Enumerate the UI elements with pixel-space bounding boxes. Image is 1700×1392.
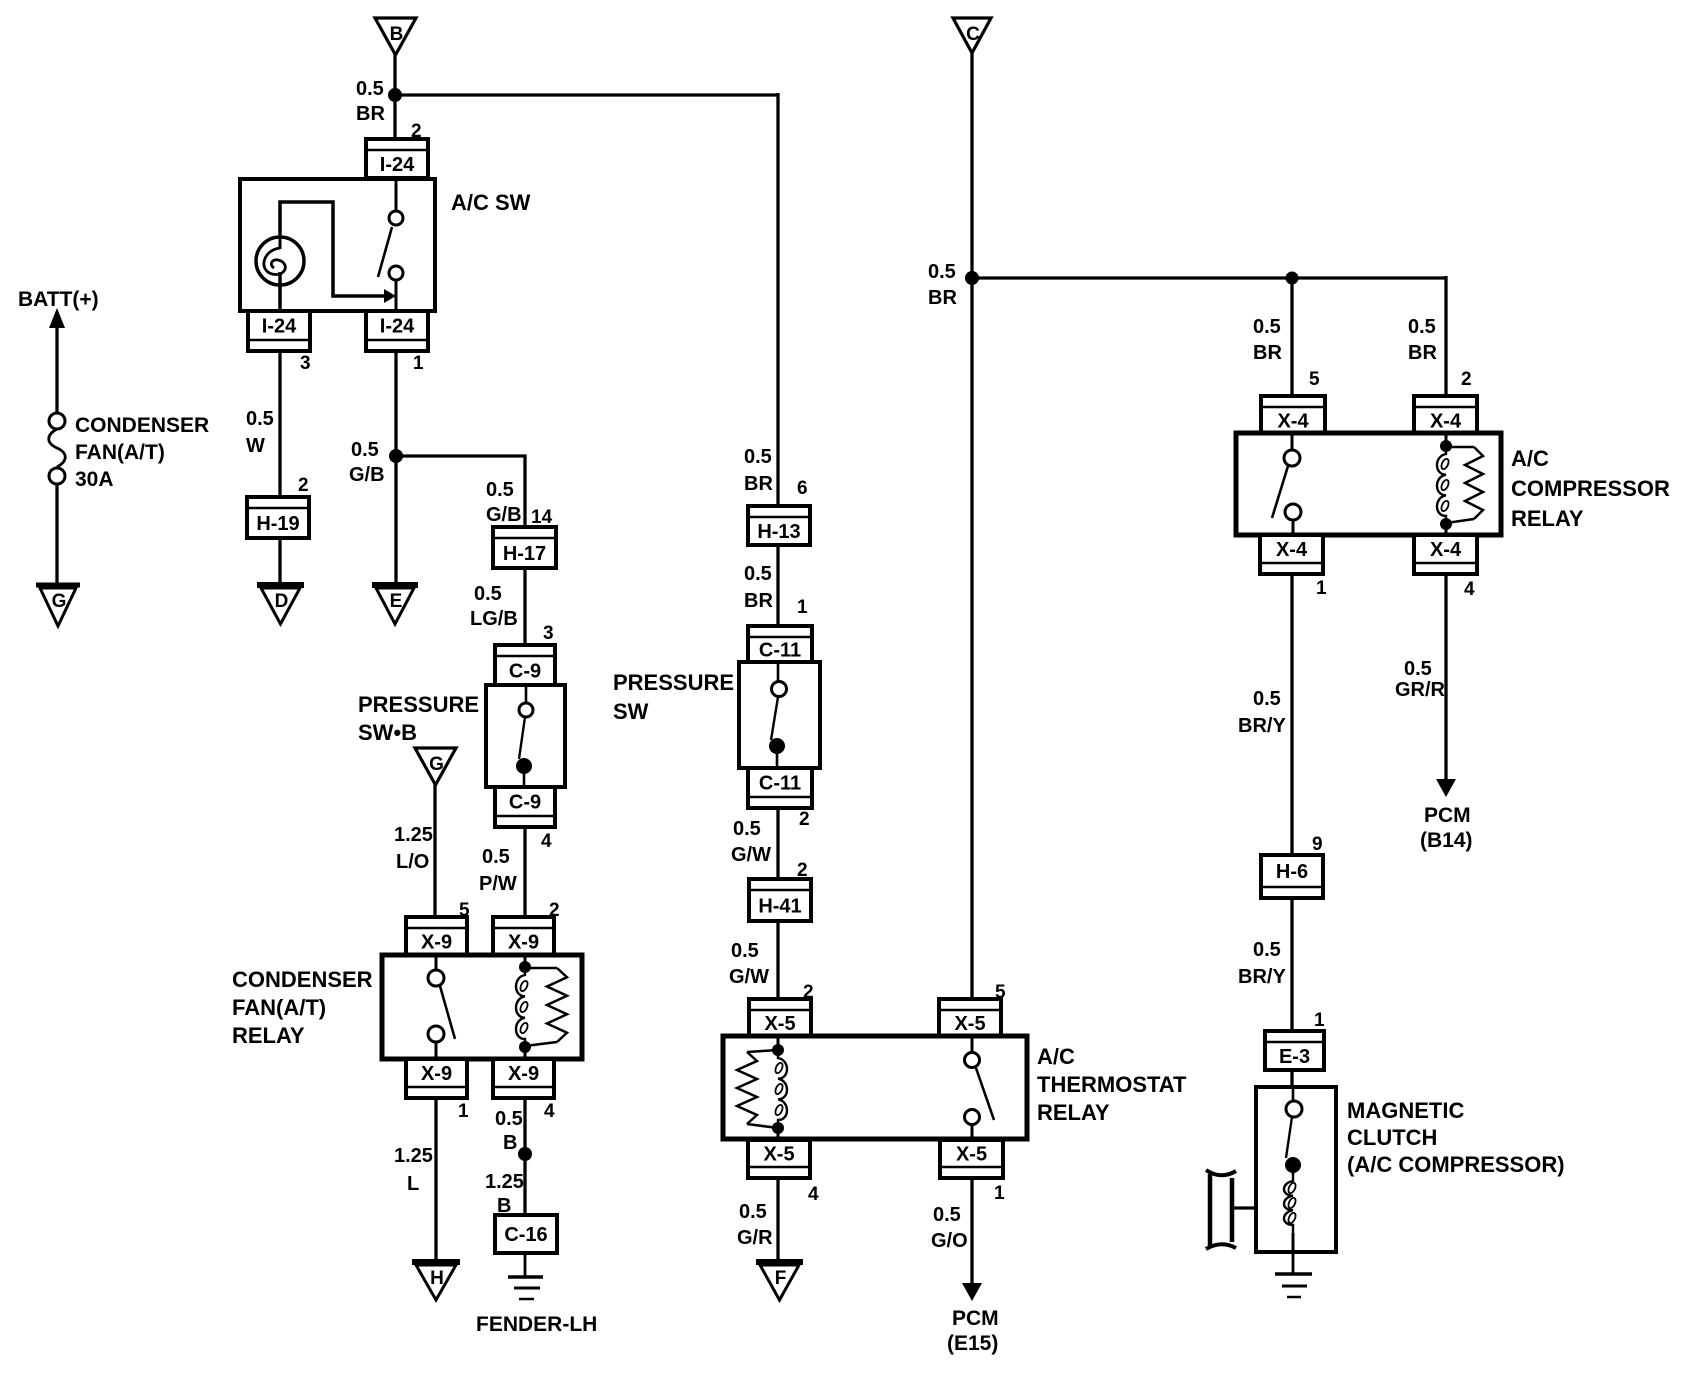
page connector C: [953, 18, 991, 53]
connector X-9 pin 1: [406, 1059, 467, 1098]
relay box A/C THERMOSTAT RELAY: [723, 1036, 1027, 1139]
pin 2 (X-5 top left): [803, 982, 814, 1003]
pin 14 (H-17): [531, 507, 553, 528]
svg-text:W: W: [246, 435, 265, 457]
pin 9 (H-6): [1312, 834, 1323, 855]
connector X-4 pin 1: [1260, 535, 1323, 574]
svg-text:X-9: X-9: [508, 1063, 539, 1085]
svg-text:(A/C COMPRESSOR): (A/C COMPRESSOR): [1347, 1152, 1565, 1177]
pin 5 (X-9 top left): [459, 900, 470, 921]
page connector B: [375, 18, 416, 55]
svg-text:4: 4: [1464, 579, 1475, 600]
switch contacts PRESSURE SW: [769, 662, 787, 768]
svg-text:COMPRESSOR: COMPRESSOR: [1511, 476, 1670, 501]
svg-text:X-9: X-9: [421, 932, 452, 954]
wire H-6 to E-3: [1290, 898, 1293, 1033]
svg-text:I-24: I-24: [380, 316, 415, 338]
connector I-24 pin 1: [366, 311, 428, 351]
connector E-3: [1265, 1031, 1324, 1070]
svg-text:I-24: I-24: [262, 316, 297, 338]
wire X-9 pin1 to H: [434, 1098, 437, 1263]
svg-text:A/C: A/C: [1511, 446, 1549, 471]
svg-text:X-5: X-5: [954, 1013, 985, 1035]
switch contacts magnetic clutch: [1285, 1087, 1302, 1173]
svg-text:H-13: H-13: [757, 521, 800, 543]
svg-text:0.5: 0.5: [928, 261, 956, 283]
svg-text:C: C: [966, 24, 980, 45]
svg-text:0.5: 0.5: [1253, 939, 1281, 961]
svg-text:H-17: H-17: [503, 543, 546, 565]
svg-text:0.5: 0.5: [482, 846, 510, 868]
relay box CONDENSER FAN(A/T) RELAY: [382, 955, 582, 1059]
wire label 0.5 BR/Y (lower): [1238, 939, 1286, 988]
page connector G (source): [415, 748, 456, 785]
connector X-4 pin 5: [1261, 396, 1325, 434]
node junction compressor branch: [1286, 272, 1299, 285]
connector X-5 pin 2: [749, 999, 811, 1036]
svg-text:G/B: G/B: [486, 504, 522, 526]
switch box PRESSURE SW-B: [486, 685, 565, 787]
connector X-9 pin 4: [493, 1059, 554, 1098]
ground (magnetic clutch): [1275, 1274, 1312, 1297]
svg-text:A/C: A/C: [1037, 1044, 1075, 1069]
node junction G/B: [389, 449, 403, 463]
svg-text:1.25: 1.25: [485, 1171, 524, 1193]
wire label 0.5 GR/R: [1395, 658, 1446, 701]
svg-text:BATT(+): BATT(+): [18, 288, 99, 311]
connector C-9 pin 4: [495, 787, 555, 827]
svg-text:B: B: [503, 1132, 517, 1154]
svg-text:C-9: C-9: [509, 792, 541, 814]
pin 2 (X-9 top right): [549, 900, 560, 921]
connector X-4 pin 4: [1414, 535, 1477, 574]
svg-text:E-3: E-3: [1279, 1046, 1310, 1068]
svg-text:G/W: G/W: [731, 844, 771, 866]
svg-text:X-4: X-4: [1277, 411, 1309, 433]
wire label 0.5 LG/B: [470, 583, 518, 630]
relay coil resistor (compressor relay): [1446, 447, 1483, 523]
relay switch (condenser fan relay): [428, 955, 455, 1059]
svg-text:X-4: X-4: [1430, 411, 1462, 433]
svg-text:C-11: C-11: [759, 640, 801, 662]
svg-text:(E15): (E15): [947, 1332, 998, 1355]
wire lamp top to switch output: [280, 202, 388, 296]
svg-text:1.25: 1.25: [394, 824, 433, 846]
svg-text:1: 1: [458, 1101, 469, 1122]
connector X-5 pin 4: [748, 1140, 810, 1178]
svg-text:I-24: I-24: [380, 154, 415, 176]
svg-text:F: F: [775, 1268, 787, 1289]
svg-text:CONDENSER: CONDENSER: [232, 967, 373, 992]
svg-text:THERMOSTAT: THERMOSTAT: [1037, 1072, 1187, 1097]
svg-text:X-5: X-5: [763, 1144, 794, 1166]
wire H-41 to X-5 pin 2: [776, 921, 779, 1001]
wire C junction to compressor relay: [972, 276, 1446, 279]
pin 2 (C-11 bottom): [799, 809, 810, 830]
wire label 1.25 L: [394, 1145, 433, 1195]
svg-text:BR/Y: BR/Y: [1238, 715, 1286, 737]
svg-text:PCM: PCM: [952, 1307, 999, 1330]
switch contacts A/C SW: [378, 178, 403, 311]
svg-text:0.5: 0.5: [933, 1204, 961, 1226]
svg-text:5: 5: [1309, 369, 1320, 390]
svg-text:BR: BR: [744, 590, 773, 612]
connector X-5 pin 5: [939, 999, 1001, 1036]
svg-text:0.5: 0.5: [356, 78, 384, 100]
wire clutch to ground: [1292, 1252, 1295, 1275]
switch contacts PRESSURE SW-B: [516, 685, 533, 787]
svg-text:L/O: L/O: [396, 851, 429, 873]
svg-text:BR/Y: BR/Y: [1238, 966, 1286, 988]
fuse label CONDENSER FAN(A/T) 30A: [75, 414, 209, 491]
svg-text:X-5: X-5: [764, 1013, 795, 1035]
connector X-9 pin 5: [406, 917, 467, 955]
lamp (A/C SW indicator): [256, 237, 304, 311]
svg-text:1: 1: [1314, 1010, 1325, 1031]
svg-text:SW: SW: [613, 699, 649, 724]
svg-text:H-6: H-6: [1276, 861, 1308, 883]
switch box PRESSURE SW: [739, 662, 820, 768]
BATT(+) arrow up: [49, 308, 65, 414]
svg-text:L: L: [407, 1173, 419, 1195]
pin 1 (E-3): [1314, 1010, 1325, 1031]
wire label 1.25 B: [485, 1171, 524, 1217]
wire H-13 to C-11: [776, 545, 779, 628]
wire junction to pressure SW column: [395, 93, 778, 508]
wire G to X-9 pin 5: [433, 783, 436, 919]
connector C-9 pin 3: [495, 645, 555, 685]
svg-text:0.5: 0.5: [246, 408, 274, 430]
node junction at B wire: [388, 88, 402, 102]
wire label 0.5 BR/Y (upper): [1238, 688, 1286, 737]
wire C-16 to ground: [524, 1253, 527, 1278]
svg-text:FENDER-LH: FENDER-LH: [476, 1313, 597, 1336]
pin 2 (H-41): [797, 860, 808, 881]
svg-text:C-16: C-16: [504, 1224, 547, 1246]
svg-text:PRESSURE: PRESSURE: [358, 692, 479, 717]
PCM (E15) label: [947, 1307, 999, 1355]
connector C-11 pin 2: [748, 768, 812, 808]
svg-text:G/W: G/W: [729, 966, 769, 988]
wire label 1.25 L/O: [394, 824, 433, 873]
svg-text:SW•B: SW•B: [358, 720, 417, 745]
arrow to PCM (E15): [962, 1283, 982, 1301]
pin 4 (X-9 bottom right): [544, 1101, 555, 1122]
svg-text:FAN(A/T): FAN(A/T): [232, 995, 326, 1020]
svg-text:X-4: X-4: [1276, 539, 1308, 561]
svg-text:0.5: 0.5: [1408, 316, 1436, 338]
svg-text:4: 4: [544, 1101, 555, 1122]
pin 4 (X-5 bottom left): [808, 1184, 819, 1205]
svg-text:BR: BR: [744, 473, 773, 495]
A/C SW label: [451, 190, 531, 215]
pin 4 (C-9 bottom): [541, 831, 552, 852]
node junction B wire: [518, 1147, 532, 1161]
wire C-9 to X-9 pin 2: [523, 827, 526, 919]
connector X-5 pin 1: [940, 1140, 1003, 1178]
svg-text:A/C SW: A/C SW: [451, 190, 531, 215]
wire C-11 to H-41: [776, 808, 779, 881]
svg-text:1: 1: [797, 597, 808, 618]
BATT(+) label: [18, 288, 99, 311]
page connector E: [372, 585, 418, 624]
svg-text:3: 3: [543, 623, 554, 644]
svg-text:RELAY: RELAY: [1037, 1100, 1110, 1125]
svg-text:3: 3: [300, 353, 311, 374]
svg-text:0.5: 0.5: [1253, 688, 1281, 710]
svg-text:0.5: 0.5: [744, 446, 772, 468]
svg-text:0.5: 0.5: [351, 439, 379, 461]
svg-text:CONDENSER: CONDENSER: [75, 414, 209, 437]
wire C down to X-5 pin 5: [970, 51, 973, 1001]
wire I-24 pin1 to E: [394, 351, 397, 586]
pin 1 (X-9 bottom left): [458, 1101, 469, 1122]
svg-text:0.5: 0.5: [733, 818, 761, 840]
svg-text:0.5: 0.5: [486, 479, 514, 501]
svg-text:LG/B: LG/B: [470, 608, 518, 630]
switch box A/C SW: [240, 179, 435, 311]
pin 3 (C-9 top): [543, 623, 554, 644]
svg-text:GR/R: GR/R: [1395, 679, 1446, 701]
relay coil (condenser fan relay): [516, 955, 531, 1059]
wire label 0.5 BR (X-4 right): [1408, 316, 1437, 364]
svg-text:PCM: PCM: [1424, 804, 1471, 827]
svg-text:H-41: H-41: [758, 896, 801, 918]
svg-text:H-19: H-19: [256, 513, 299, 535]
svg-text:(B14): (B14): [1420, 829, 1473, 852]
svg-text:P/W: P/W: [479, 873, 517, 895]
MAGNETIC CLUTCH label: [1347, 1098, 1565, 1177]
arrow to PCM (B14): [1436, 779, 1456, 797]
svg-text:30A: 30A: [75, 468, 114, 491]
svg-text:6: 6: [797, 478, 808, 499]
node junction C: [965, 271, 979, 285]
node junction arrow (A/C SW internal): [384, 289, 396, 303]
wire label 0.5 BR (H-13): [744, 446, 773, 495]
svg-text:X-5: X-5: [956, 1144, 987, 1166]
svg-text:1: 1: [994, 1183, 1005, 1204]
wire label 0.5 P/W: [479, 846, 517, 895]
svg-text:4: 4: [541, 831, 552, 852]
wire X-4 pin4 to PCM B14: [1444, 574, 1447, 782]
relay switch (compressor relay): [1272, 433, 1301, 535]
connector H-19: [247, 497, 309, 538]
svg-text:B: B: [390, 24, 404, 45]
svg-text:2: 2: [799, 809, 810, 830]
wire label 0.5 BR (B): [356, 78, 385, 125]
svg-text:RELAY: RELAY: [232, 1023, 305, 1048]
wire X-5 pin1 to PCM E15: [970, 1178, 973, 1286]
wire H-17 to C-9: [523, 568, 526, 647]
pin 2 (I-24 top): [411, 121, 422, 142]
wire X-9 pin4 to C-16: [523, 1098, 526, 1217]
svg-text:PRESSURE: PRESSURE: [613, 670, 734, 695]
svg-text:G/O: G/O: [931, 1230, 968, 1252]
svg-text:2: 2: [298, 475, 309, 496]
connector I-24 pin 3: [248, 311, 310, 351]
relay switch (thermostat relay): [965, 1036, 995, 1140]
svg-text:0.5: 0.5: [1404, 658, 1432, 680]
connector X-9 pin 2: [493, 917, 554, 955]
pin 1 (C-11 top): [797, 597, 808, 618]
wire label 0.5 G/R: [737, 1201, 773, 1249]
wire label 0.5 G/W (lower): [729, 940, 769, 988]
svg-text:CLUTCH: CLUTCH: [1347, 1125, 1437, 1150]
relay coil resistor (thermostat relay): [737, 1050, 778, 1128]
svg-text:14: 14: [531, 507, 553, 528]
component box MAGNETIC CLUTCH: [1256, 1087, 1336, 1252]
PRESSURE SW label: [613, 670, 734, 724]
svg-text:0.5: 0.5: [731, 940, 759, 962]
wire label 0.5 BR (X-4 left): [1253, 316, 1282, 364]
connector I-24 pin 2: [366, 139, 428, 178]
connector H-41: [749, 879, 811, 921]
PCM (B14) label: [1420, 804, 1473, 852]
svg-text:H: H: [430, 1268, 444, 1289]
svg-text:0.5: 0.5: [744, 563, 772, 585]
connector C-16: [495, 1215, 557, 1253]
pin 1 (X-4 bottom left): [1316, 578, 1327, 599]
wire label 0.5 W: [246, 408, 274, 457]
PRESSURE SW-B label: [358, 692, 479, 745]
pin 6 (H-13): [797, 478, 808, 499]
svg-text:1: 1: [413, 353, 424, 374]
svg-text:G/B: G/B: [349, 464, 385, 486]
wire X-5 pin4 to F: [776, 1178, 779, 1263]
svg-text:X-9: X-9: [508, 932, 539, 954]
wire label 0.5 G/O: [931, 1204, 968, 1252]
svg-text:0.5: 0.5: [495, 1108, 523, 1130]
fuse CONDENSER FAN(A/T) 30A: [49, 413, 66, 484]
connector H-6: [1261, 855, 1323, 898]
wire label 0.5 BR (C-11): [744, 563, 773, 612]
relay coil (compressor relay): [1437, 433, 1452, 535]
svg-text:RELAY: RELAY: [1511, 506, 1584, 531]
svg-text:9: 9: [1312, 834, 1323, 855]
svg-text:MAGNETIC: MAGNETIC: [1347, 1098, 1464, 1123]
wire label 0.5 BR (C): [928, 261, 957, 309]
pin 3 (I-24 bottom left): [300, 353, 311, 374]
wire label 0.5 B: [495, 1108, 523, 1154]
wire X-4 pin1 to H-6: [1290, 574, 1293, 857]
svg-text:X-4: X-4: [1430, 539, 1462, 561]
connector X-4 pin 2: [1414, 396, 1477, 434]
wire junction to X-4 pin 5: [1290, 278, 1293, 398]
page connector H: [412, 1262, 460, 1300]
svg-text:G: G: [52, 591, 67, 612]
connector C-11 pin 1: [748, 626, 812, 662]
relay coil resistor (condenser fan relay): [525, 968, 567, 1046]
pin 5 (X-5 top right): [995, 982, 1006, 1003]
relay box A/C COMPRESSOR RELAY: [1236, 433, 1501, 535]
svg-text:E: E: [390, 591, 403, 612]
wire label 0.5 G/B (branch): [486, 479, 522, 526]
wire E-3 to magnetic clutch: [1290, 1070, 1293, 1089]
wire junction to H-17: [396, 456, 525, 529]
relay coil (thermostat relay): [772, 1036, 787, 1140]
svg-text:C-9: C-9: [509, 661, 541, 683]
svg-text:D: D: [275, 591, 289, 612]
pin 1 (I-24 bottom right): [413, 353, 424, 374]
svg-text:G/R: G/R: [737, 1227, 773, 1249]
page connector D: [257, 585, 304, 624]
svg-text:FAN(A/T): FAN(A/T): [75, 441, 165, 464]
FENDER-LH label: [476, 1313, 597, 1336]
wire I-24 pin3 to H-19: [278, 351, 281, 499]
A/C THERMOSTAT RELAY label: [1037, 1044, 1187, 1125]
pin 2 (X-4 top right): [1461, 369, 1472, 390]
wire H-19 to D: [278, 538, 281, 586]
wire label 0.5 G/W (upper): [731, 818, 771, 866]
svg-text:2: 2: [1461, 369, 1472, 390]
svg-text:1.25: 1.25: [394, 1145, 433, 1167]
wire B down to I-24 pin 2: [393, 53, 396, 141]
wire fuse to G: [55, 484, 58, 586]
pin 2 (H-19): [298, 475, 309, 496]
page connector G (left): [36, 585, 80, 626]
ground FENDER-LH: [508, 1277, 543, 1299]
svg-text:BR: BR: [928, 287, 957, 309]
wire pulley to clutch box: [1233, 1206, 1256, 1209]
svg-text:C-11: C-11: [759, 773, 801, 795]
wire to X-4 pin 2: [1444, 276, 1447, 398]
svg-text:0.5: 0.5: [474, 583, 502, 605]
A/C COMPRESSOR RELAY label: [1511, 446, 1670, 531]
wire label 0.5 G/B: [349, 439, 385, 486]
svg-text:4: 4: [808, 1184, 819, 1205]
svg-text:0.5: 0.5: [1253, 316, 1281, 338]
svg-text:BR: BR: [1253, 342, 1282, 364]
pin 1 (X-5 bottom right): [994, 1183, 1005, 1204]
connector H-13: [748, 506, 810, 545]
svg-text:BR: BR: [356, 103, 385, 125]
svg-text:G: G: [429, 754, 444, 775]
svg-text:BR: BR: [1408, 342, 1437, 364]
svg-text:0.5: 0.5: [739, 1201, 767, 1223]
svg-text:X-9: X-9: [421, 1063, 452, 1085]
compressor pulley: [1206, 1170, 1236, 1249]
clutch coil: [1284, 1165, 1297, 1254]
pin 5 (X-4 top left): [1309, 369, 1320, 390]
pin 4 (X-4 bottom right): [1464, 579, 1475, 600]
svg-text:1: 1: [1316, 578, 1327, 599]
CONDENSER FAN(A/T) RELAY label: [232, 967, 373, 1048]
page connector F: [756, 1262, 803, 1300]
connector H-17: [493, 527, 556, 568]
